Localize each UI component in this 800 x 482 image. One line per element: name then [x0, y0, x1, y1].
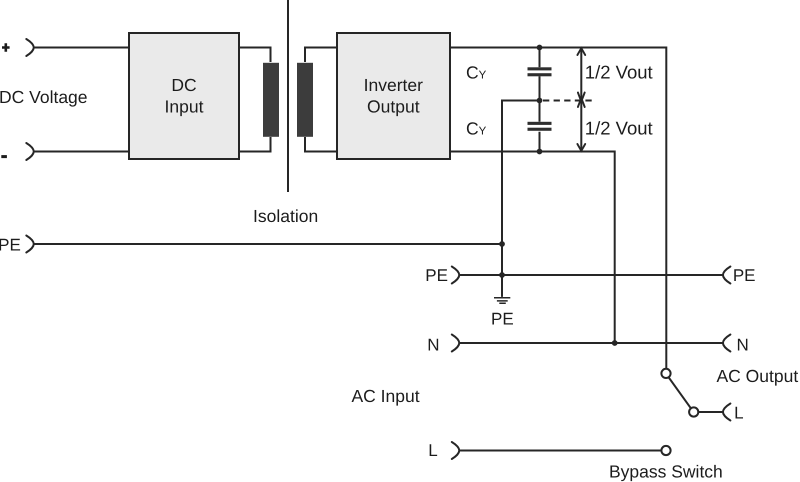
svg-text:AC Output: AC Output	[717, 366, 799, 386]
svg-text:N: N	[427, 336, 439, 355]
svg-text:Isolation: Isolation	[253, 206, 318, 226]
svg-text:PE: PE	[425, 266, 448, 285]
svg-text:DC: DC	[171, 75, 196, 95]
svg-text:CY: CY	[466, 62, 487, 82]
svg-text:PE: PE	[491, 310, 514, 329]
svg-text:CY: CY	[466, 118, 487, 138]
svg-text:Input: Input	[165, 97, 204, 117]
svg-text:1/2 Vout: 1/2 Vout	[585, 117, 653, 138]
svg-text:PE: PE	[0, 236, 21, 255]
svg-text:Bypass Switch: Bypass Switch	[609, 462, 723, 482]
svg-text:Output: Output	[367, 97, 420, 117]
svg-text:DC Voltage: DC Voltage	[0, 87, 88, 107]
svg-text:Inverter: Inverter	[364, 75, 423, 95]
svg-text:1/2 Vout: 1/2 Vout	[585, 61, 653, 82]
svg-text:L: L	[428, 441, 437, 460]
svg-text:L: L	[734, 404, 743, 423]
svg-text:PE: PE	[733, 266, 756, 285]
svg-text:AC Input: AC Input	[352, 386, 420, 406]
svg-text:N: N	[737, 336, 749, 355]
